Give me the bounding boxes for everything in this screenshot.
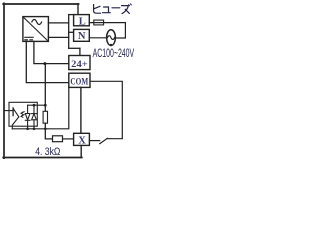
node junction R1 rail xyxy=(44,128,47,131)
node junction D2 top rail xyxy=(33,104,36,107)
wire stub into terminal N xyxy=(69,31,74,33)
PLC enclosure border bottom xyxy=(3,157,82,159)
AC source bottom terminal blob xyxy=(110,44,112,46)
terminal COM box xyxy=(69,73,90,87)
svg-text:N: N xyxy=(78,31,86,42)
wire converter to N bus xyxy=(48,36,68,38)
PLC border stub to terminal L xyxy=(77,4,79,15)
node junction 24V bus xyxy=(43,62,46,65)
AC source circle xyxy=(107,30,116,46)
boundary connector COM to X xyxy=(80,87,82,133)
node junction rail top xyxy=(44,104,47,107)
terminal N box xyxy=(74,29,90,41)
node junction D1 rail xyxy=(26,128,29,131)
fuse F1 xyxy=(94,20,104,25)
svg-text:COM: COM xyxy=(70,77,88,88)
boundary connector X to bottom border xyxy=(80,145,82,157)
LED D1 wire upper xyxy=(27,105,29,113)
main internal vertical wire lower xyxy=(45,123,52,139)
wire converter to L bus xyxy=(48,22,68,24)
LED D2 triangle up xyxy=(32,114,37,120)
light arrow upper xyxy=(21,112,24,115)
node junction D2 rail xyxy=(33,128,36,131)
PLC enclosure border top xyxy=(3,3,78,5)
terminal 24+ box xyxy=(69,56,90,70)
LED D2 wire lower xyxy=(33,120,35,129)
svg-text:X: X xyxy=(78,136,86,147)
phototransistor emitter diagonal xyxy=(12,117,18,129)
COM return rail wire xyxy=(12,87,69,128)
converter U1 AC tilde xyxy=(32,20,42,25)
phototransistor bar xyxy=(12,108,14,116)
resistor R2 4.3k ohm xyxy=(53,136,63,142)
wire R2 to terminal X xyxy=(63,138,74,140)
label fuse (katakana hyuzu) xyxy=(94,4,132,14)
LED D1 triangle down xyxy=(25,114,30,120)
bus vertical left of terminals xyxy=(68,15,70,49)
phototransistor collector lead xyxy=(5,110,14,112)
photocoupler PC1 box xyxy=(9,102,37,126)
converter U1 DC solid line xyxy=(25,36,33,38)
converter COM down lead xyxy=(26,41,69,82)
wire COM to switch xyxy=(90,81,122,138)
terminal L box xyxy=(74,15,90,26)
svg-text:L: L xyxy=(79,16,86,27)
light arrow lower xyxy=(21,115,24,118)
LED D1 wire lower xyxy=(27,120,29,129)
boundary jog vertical to 24+ xyxy=(79,48,81,55)
LED D2 wire upper xyxy=(33,105,35,113)
terminal X box xyxy=(74,133,90,145)
converter U1 diagonal xyxy=(23,17,48,41)
wire X to switch xyxy=(89,140,99,142)
converter U1 AC/DC box xyxy=(23,17,49,42)
AC source tilde xyxy=(108,36,115,40)
svg-text:4. 3kΩ: 4. 3kΩ xyxy=(35,146,60,158)
svg-text:24+: 24+ xyxy=(71,59,88,70)
LED D2 cathode bar xyxy=(32,113,37,115)
phototransistor collector diagonal xyxy=(13,108,19,117)
photocoupler top rail xyxy=(28,104,46,106)
converter 24V down lead xyxy=(34,41,69,63)
resistor R1 internal vertical xyxy=(43,111,47,123)
switch S1 blade xyxy=(100,138,108,143)
LED D1 cathode bar xyxy=(25,119,30,121)
main internal vertical wire upper xyxy=(44,64,46,112)
svg-text:AC100~240V: AC100~240V xyxy=(93,46,135,60)
wire N to AC source xyxy=(89,37,106,39)
converter U1 DC dashed line xyxy=(25,39,33,41)
PLC enclosure border left xyxy=(3,3,5,158)
boundary jog horizontal xyxy=(69,47,80,49)
wire L to fuse corner xyxy=(89,23,125,38)
terminal L top edge extension xyxy=(69,14,74,16)
